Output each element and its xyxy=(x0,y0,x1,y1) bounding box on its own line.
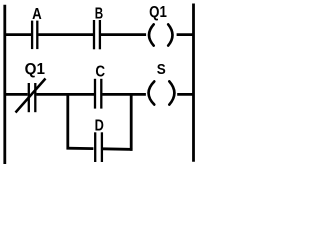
svg-text:D: D xyxy=(95,117,104,135)
svg-text:Q1: Q1 xyxy=(149,4,167,21)
svg-text:S: S xyxy=(157,61,166,78)
svg-text:C: C xyxy=(95,64,105,81)
svg-text:B: B xyxy=(95,4,103,22)
svg-text:A: A xyxy=(32,6,42,23)
svg-text:Q1: Q1 xyxy=(25,61,46,78)
